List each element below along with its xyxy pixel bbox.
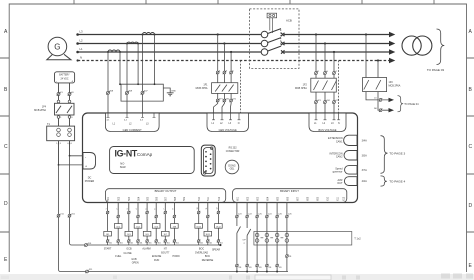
svg-text:ACB: ACB: [286, 19, 292, 23]
svg-text:3/4A: 3/4A: [362, 139, 367, 142]
svg-text:301: 301: [220, 243, 223, 245]
svg-text:1: 1: [106, 209, 108, 210]
svg-text:BATTERY: BATTERY: [59, 74, 70, 77]
svg-text:GCB: GCB: [126, 247, 132, 250]
svg-text:3/5A: 3/5A: [362, 154, 367, 157]
svg-text:311: 311: [249, 267, 252, 269]
svg-text:L2: L2: [80, 39, 84, 43]
svg-text:3: 3: [127, 209, 129, 210]
svg-text:OP: OP: [243, 240, 247, 242]
svg-text:MCB 3P6A: MCB 3P6A: [196, 87, 208, 90]
svg-text:2: 2: [116, 209, 118, 210]
svg-text:311: 311: [238, 267, 241, 269]
svg-text:OUT: OUT: [337, 182, 343, 185]
svg-text:POWER: POWER: [85, 180, 95, 183]
svg-text:301: 301: [176, 243, 179, 245]
svg-text:C: C: [4, 144, 8, 150]
svg-text:BOC: BOC: [205, 255, 210, 258]
svg-text:NO: NO: [120, 161, 124, 165]
svg-text:311: 311: [288, 256, 291, 258]
svg-text:CAN2: CAN2: [336, 156, 343, 159]
svg-text:ENGINE: ENGINE: [152, 255, 162, 258]
svg-text:OVERLOAD: OVERLOAD: [195, 251, 209, 254]
svg-text:L1: L1: [80, 47, 84, 51]
svg-text:301: 301: [209, 243, 212, 245]
svg-text:BUS VOLTAGE: BUS VOLTAGE: [319, 128, 337, 132]
svg-text:301: 301: [149, 243, 152, 245]
svg-text:11: 11: [206, 208, 208, 210]
svg-text:REVERSE: REVERSE: [202, 259, 214, 262]
svg-text:T 1x2: T 1x2: [354, 237, 361, 241]
svg-text:L3: L3: [80, 30, 84, 34]
svg-text:GEL: GEL: [230, 168, 235, 171]
svg-text:BINARY INPUT: BINARY INPUT: [280, 189, 299, 193]
svg-text:24 VDC: 24 VDC: [60, 78, 68, 80]
svg-text:ALARM: ALARM: [142, 247, 150, 250]
svg-text:5: 5: [145, 209, 147, 210]
svg-text:311: 311: [259, 267, 262, 269]
svg-text:301: 301: [158, 243, 161, 245]
svg-text:311: 311: [279, 267, 282, 269]
svg-text:START: START: [104, 247, 112, 250]
svg-text:SGR: SGR: [120, 165, 126, 169]
svg-text:MCB 2P6A: MCB 2P6A: [389, 85, 401, 88]
svg-text:GEN VOLTAGE: GEN VOLTAGE: [219, 128, 237, 132]
svg-text:TO PAGE 3: TO PAGE 3: [389, 152, 405, 156]
svg-text:12: 12: [217, 208, 219, 210]
svg-text:governor: governor: [333, 171, 343, 174]
svg-text:GND: GND: [171, 90, 176, 92]
svg-text:301: 301: [120, 243, 123, 245]
svg-text:311: 311: [268, 267, 271, 269]
svg-text:8: 8: [173, 209, 175, 210]
svg-text:7: 7: [164, 209, 166, 210]
svg-text:301: 301: [200, 243, 203, 245]
svg-text:301: 301: [109, 243, 112, 245]
svg-text:ComAp: ComAp: [137, 152, 153, 157]
svg-text:MCB 3P6A: MCB 3P6A: [295, 87, 307, 90]
svg-text:TO PAGE 4: TO PAGE 4: [389, 180, 405, 184]
svg-text:N: N: [80, 56, 82, 60]
svg-text:RUN: RUN: [154, 259, 159, 262]
svg-text:HORN: HORN: [172, 255, 179, 258]
svg-text:OPEN: OPEN: [132, 261, 139, 264]
svg-text:GEN CURRENT: GEN CURRENT: [123, 128, 142, 132]
svg-text:CONECTOR: CONECTOR: [226, 150, 240, 153]
svg-text:CAN1: CAN1: [336, 140, 343, 143]
svg-text:+: +: [85, 165, 87, 169]
svg-text:BOC: BOC: [199, 247, 204, 250]
svg-text:301: 301: [139, 243, 142, 245]
svg-text:MCB 2P6A: MCB 2P6A: [34, 109, 46, 112]
svg-text:BOUT7: BOUT7: [161, 251, 170, 254]
svg-text:6: 6: [154, 209, 156, 210]
svg-text:4: 4: [136, 209, 138, 210]
svg-text:CLOSE: CLOSE: [124, 252, 133, 255]
svg-text:301: 301: [167, 243, 170, 245]
svg-text:D: D: [4, 201, 8, 207]
svg-text:TO PAGE 04: TO PAGE 04: [404, 103, 419, 106]
svg-text:IG-NT: IG-NT: [115, 148, 138, 158]
svg-text:3/7A: 3/7A: [362, 169, 367, 172]
svg-text:4/2A: 4/2A: [362, 180, 367, 183]
svg-text:NT: NT: [164, 247, 168, 250]
svg-text:SPEAR: SPEAR: [212, 249, 220, 252]
svg-text:D: D: [469, 203, 473, 209]
svg-text:TO PAGE 03: TO PAGE 03: [427, 68, 445, 72]
svg-text:301: 301: [130, 243, 133, 245]
svg-text:-: -: [56, 79, 57, 83]
svg-text:+: +: [71, 79, 73, 83]
svg-text:BINARY OUTPUT: BINARY OUTPUT: [155, 189, 177, 193]
svg-text:C: C: [469, 144, 473, 150]
svg-text:FUEL: FUEL: [115, 255, 122, 258]
svg-text:G: G: [54, 43, 60, 52]
svg-text:10: 10: [197, 208, 199, 210]
